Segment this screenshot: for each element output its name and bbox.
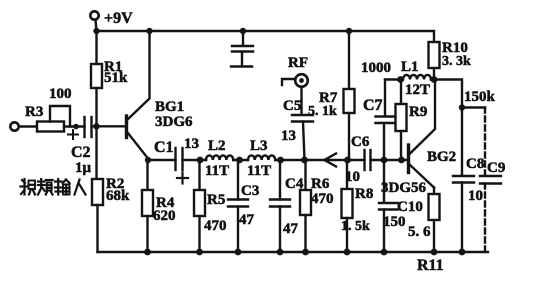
svg-text:13: 13 bbox=[281, 128, 296, 144]
inductor L3 bbox=[248, 155, 275, 160]
resistor R6 bbox=[300, 160, 311, 252]
wire ground rail bbox=[98, 251, 489, 253]
input terminal bbox=[10, 122, 18, 130]
svg-text:BG2: BG2 bbox=[427, 149, 456, 165]
wire output jog bbox=[434, 80, 462, 108]
svg-text:3DG56: 3DG56 bbox=[381, 180, 427, 196]
capacitor C7 bbox=[376, 80, 395, 161]
junction collector node bbox=[431, 76, 438, 83]
power terminal +9V bbox=[90, 11, 98, 19]
wire L2 to L3 bbox=[233, 159, 248, 161]
resistor R10 bbox=[429, 42, 440, 80]
svg-text:L1: L1 bbox=[401, 59, 419, 75]
svg-text:R3: R3 bbox=[25, 104, 43, 120]
svg-text:1μ: 1μ bbox=[75, 160, 92, 176]
wire C8 column upper bbox=[461, 108, 463, 176]
svg-text:3. 3k: 3. 3k bbox=[442, 54, 471, 69]
svg-text:150k: 150k bbox=[464, 89, 496, 105]
junction ground R4 bbox=[144, 249, 151, 256]
wire 150k node to C9 branch bbox=[462, 106, 485, 108]
junction R5 node bbox=[197, 157, 204, 164]
svg-text:470: 470 bbox=[204, 218, 227, 234]
junction emitter row bbox=[145, 157, 151, 163]
junction base node bbox=[93, 123, 99, 129]
svg-text:47: 47 bbox=[239, 212, 255, 228]
svg-text:620: 620 bbox=[153, 208, 176, 224]
svg-text:1000: 1000 bbox=[361, 60, 391, 76]
svg-text:3DG6: 3DG6 bbox=[155, 114, 193, 130]
svg-text:+9V: +9V bbox=[104, 10, 133, 27]
svg-text:11T: 11T bbox=[205, 163, 229, 179]
wire R3 to C2 bbox=[64, 125, 85, 127]
junction ground R8 bbox=[344, 249, 351, 256]
junction ground R6 bbox=[302, 249, 309, 256]
junction R3 C2 bbox=[73, 124, 79, 130]
signal arrow on row bbox=[325, 154, 337, 167]
resistor R8 bbox=[342, 160, 353, 252]
polarity + of C2 bbox=[68, 130, 78, 139]
label video input (Chinese) bbox=[21, 179, 86, 195]
wire input to R3 bbox=[19, 125, 37, 127]
transistor BG2 collector bbox=[410, 80, 436, 155]
junction ground C3 bbox=[235, 249, 242, 256]
wire R2 bottom to ground rail bbox=[96, 205, 98, 252]
junction ground C4 bbox=[277, 249, 284, 256]
svg-text:R8: R8 bbox=[355, 186, 373, 202]
wire C7 top to L1 node bbox=[385, 78, 401, 80]
wire C9 column lower dashed bbox=[484, 184, 486, 253]
capacitor C10 bbox=[379, 160, 398, 252]
transistor BG1 base bar bbox=[125, 116, 128, 138]
bypass capacitor at top rail bbox=[231, 31, 253, 67]
capacitor C3 bbox=[228, 160, 248, 252]
svg-text:13: 13 bbox=[184, 136, 199, 152]
svg-text:150: 150 bbox=[383, 214, 406, 230]
inductor L1 bbox=[403, 75, 431, 80]
wire R2 top bbox=[95, 126, 97, 179]
svg-text:R11: R11 bbox=[417, 257, 444, 274]
junction C7 C10 node bbox=[381, 157, 388, 164]
junction ground R5 bbox=[196, 249, 203, 256]
resistor R1 bbox=[91, 64, 102, 88]
wire R1 top bbox=[95, 31, 97, 64]
wire C1 to L2 bbox=[183, 159, 207, 161]
svg-text:C8: C8 bbox=[466, 156, 484, 172]
wire RF hook bbox=[282, 79, 295, 85]
junction ground C10 bbox=[381, 249, 388, 256]
transistor BG1 collector bbox=[128, 31, 150, 120]
junction top rail at R7 bbox=[346, 28, 352, 34]
svg-text:R6: R6 bbox=[311, 176, 330, 192]
svg-text:L3: L3 bbox=[250, 138, 268, 154]
capacitor C8 bbox=[453, 176, 474, 252]
resistor R7 bbox=[344, 31, 355, 160]
wire C9 column upper dashed bbox=[484, 108, 486, 176]
wire C6 to BG2 base bbox=[371, 159, 408, 161]
capacitor 100 parallel loop bbox=[50, 106, 70, 127]
svg-text:C1: C1 bbox=[154, 139, 174, 156]
junction L1 left node bbox=[397, 76, 404, 83]
svg-text:11T: 11T bbox=[247, 163, 271, 179]
junction C3 node bbox=[236, 157, 243, 164]
svg-text:12T: 12T bbox=[405, 82, 430, 98]
wire R1 bottom to base node bbox=[95, 88, 97, 126]
wire C5 to row bbox=[303, 122, 305, 161]
junction R7 R8 node bbox=[344, 157, 351, 164]
resistor R11 bbox=[429, 188, 440, 253]
junction C4 node bbox=[277, 157, 284, 164]
svg-text:L2: L2 bbox=[208, 138, 226, 154]
capacitor C1 bbox=[176, 148, 183, 170]
junction ground R11 bbox=[431, 249, 438, 256]
svg-text:100: 100 bbox=[49, 86, 72, 102]
svg-text:10: 10 bbox=[345, 169, 360, 185]
svg-text:RF: RF bbox=[288, 55, 308, 71]
transistor BG2 emitter bbox=[410, 165, 435, 188]
svg-text:10: 10 bbox=[468, 188, 483, 204]
wire +9V stub bbox=[96, 20, 97, 31]
svg-text:C2: C2 bbox=[71, 144, 91, 161]
junction top rail at R1 bbox=[93, 28, 99, 34]
svg-text:C7: C7 bbox=[363, 97, 383, 114]
svg-text:R5: R5 bbox=[207, 192, 225, 208]
svg-text:1. 5k: 1. 5k bbox=[341, 219, 370, 234]
svg-text:C3: C3 bbox=[241, 183, 259, 199]
svg-text:470: 470 bbox=[311, 191, 334, 207]
junction 150k node bbox=[459, 104, 465, 110]
transistor BG1 emitter bbox=[128, 133, 149, 159]
svg-text:5. 6: 5. 6 bbox=[408, 224, 431, 240]
wire L3 to C6 bbox=[275, 159, 364, 161]
junction R9 node bbox=[398, 157, 405, 164]
capacitor C4 bbox=[270, 160, 290, 252]
inductor L2 bbox=[206, 155, 233, 160]
polarity + of C1 bbox=[177, 173, 188, 184]
transistor BG2 base bar bbox=[407, 145, 410, 173]
svg-text:C5: C5 bbox=[283, 98, 301, 114]
wire C2 to base node bbox=[92, 125, 127, 127]
resistor R5 bbox=[194, 160, 205, 252]
svg-text:47: 47 bbox=[283, 221, 299, 237]
wire middle row emitter to C1 bbox=[148, 159, 176, 161]
wire RF to C5 bbox=[300, 87, 302, 115]
svg-text:R9: R9 bbox=[409, 104, 427, 120]
RF output connector bbox=[295, 74, 308, 87]
svg-text:51k: 51k bbox=[104, 70, 128, 86]
svg-text:5. 1k: 5. 1k bbox=[308, 104, 337, 119]
capacitor C2 bbox=[85, 117, 92, 137]
svg-text:C10: C10 bbox=[397, 199, 423, 215]
capacitor C9 bbox=[480, 176, 501, 184]
resistor R2 bbox=[92, 179, 103, 205]
svg-text:BG1: BG1 bbox=[155, 99, 184, 115]
junction C5 R6 node bbox=[301, 157, 308, 164]
resistor R9 bbox=[396, 80, 407, 161]
wire top rail bbox=[97, 31, 435, 42]
resistor R4 bbox=[142, 160, 153, 252]
junction top rail at bypass cap bbox=[240, 28, 246, 34]
svg-text:C6: C6 bbox=[351, 134, 370, 150]
svg-text:68k: 68k bbox=[106, 188, 130, 204]
capacitor C5 bbox=[292, 115, 313, 122]
capacitor C6 bbox=[365, 150, 371, 170]
svg-text:C9: C9 bbox=[487, 160, 505, 176]
junction top rail at BG1 collector bbox=[146, 28, 152, 34]
wire L1 to collector node bbox=[431, 78, 434, 80]
resistor R3 bbox=[37, 122, 64, 132]
junction ground C8 bbox=[459, 249, 466, 256]
